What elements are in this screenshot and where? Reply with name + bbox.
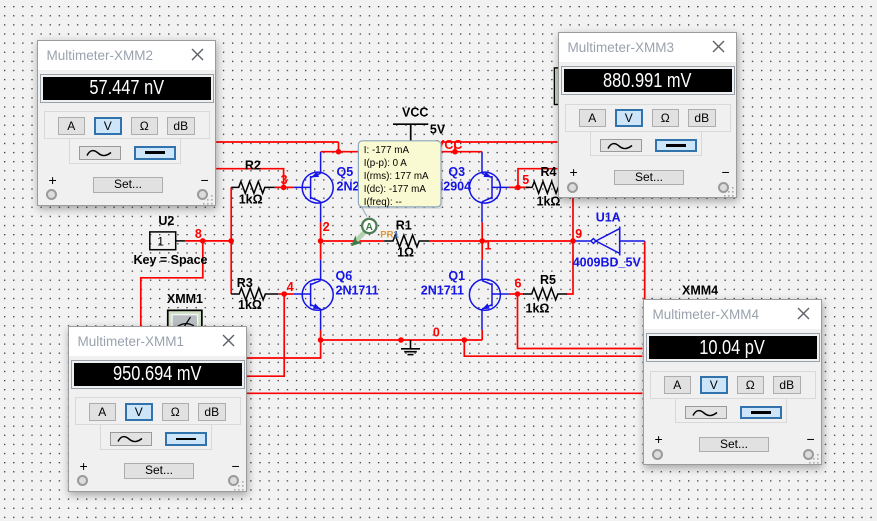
svg-text:I(p-p): 0 A: I(p-p): 0 A xyxy=(364,158,407,169)
svg-text:U2: U2 xyxy=(158,214,174,228)
wire Q6 emitter to rail, down-left to XMM1 xyxy=(246,330,321,358)
svg-text:3: 3 xyxy=(281,173,288,187)
wire top rail right to XMM3 xyxy=(441,141,558,143)
junction node 4 xyxy=(281,291,287,297)
svg-text:2N1711: 2N1711 xyxy=(421,284,464,298)
instrument icon XMM1 xyxy=(167,310,203,336)
svg-text:5: 5 xyxy=(522,173,529,187)
wire XMM3 minus down through node 9 to R5 xyxy=(566,198,573,294)
junction ground rail right xyxy=(462,337,468,343)
wire Q1 base to node 6 xyxy=(509,293,524,295)
wire vertical R2-R3 bus xyxy=(230,187,232,294)
svg-text:Q3: Q3 xyxy=(448,165,465,179)
junction on VCC rail right xyxy=(452,149,458,155)
inverter U1A 4009BD_5V xyxy=(573,227,645,256)
wire drop rail1 to VCC rail at x=338.5 xyxy=(338,142,340,152)
wire U1A output to XMM4 xyxy=(644,241,646,299)
wire rail drop to XMM4 xyxy=(464,340,642,356)
svg-text:0: 0 xyxy=(433,325,440,339)
svg-text:R4: R4 xyxy=(541,165,557,179)
svg-text:Q5: Q5 xyxy=(337,165,354,179)
svg-text:6: 6 xyxy=(515,277,522,291)
junction node 1 xyxy=(479,238,485,244)
wire VCC rail xyxy=(321,151,483,153)
junction node 6 xyxy=(515,291,521,297)
svg-text:Key = Space: Key = Space xyxy=(134,253,208,267)
wire U2 to bus junction xyxy=(185,240,231,242)
resistor R5 1k xyxy=(523,288,567,300)
wire node 5 up to XMM3 xyxy=(518,169,558,188)
wire node 8 down-left to XMM1 xyxy=(141,241,203,328)
probe tooltip xyxy=(358,141,443,217)
Multimeter-XMM2 window xyxy=(37,40,216,206)
svg-text:4: 4 xyxy=(287,280,294,294)
wire drop rail1 to VCC rail at x=455 xyxy=(454,142,456,152)
svg-text:5V: 5V xyxy=(430,123,446,137)
wire node 4 down to XMM1 xyxy=(246,294,284,376)
wire XMM1 to XMM4 bottom xyxy=(246,392,643,394)
ground xyxy=(401,340,420,355)
wire Q5 emitter to node 2 xyxy=(320,222,322,259)
resistor R3 1k xyxy=(231,288,278,300)
wire R2 to node 3 to Q5 base xyxy=(275,186,294,188)
resistor R1 1ohm xyxy=(384,235,429,247)
svg-text:R1: R1 xyxy=(396,219,412,233)
svg-text:Q1: Q1 xyxy=(448,269,465,283)
resistor R4 1k xyxy=(526,182,566,194)
svg-text:I(dc): -177 mA: I(dc): -177 mA xyxy=(364,184,427,195)
wire R3 to node 4 to Q6 base xyxy=(279,293,294,295)
junction node 9 xyxy=(570,238,576,244)
transistor Q3 2N2904 PNP mirrored xyxy=(469,152,508,222)
junction node 8 xyxy=(200,238,206,244)
svg-text:Q6: Q6 xyxy=(336,269,353,283)
svg-text:R5: R5 xyxy=(540,273,556,287)
junction ground rail left xyxy=(318,337,324,343)
junction node 3 xyxy=(281,185,287,191)
transistor Q5 2N2904 PNP xyxy=(294,152,334,222)
Multimeter-XMM1 window xyxy=(68,326,247,492)
svg-text:XMM1: XMM1 xyxy=(167,292,203,306)
wire Q3 collector to node1 to Q1 collector xyxy=(481,222,483,259)
VCC power symbol xyxy=(393,124,428,152)
wire Q1 emitter to rail xyxy=(481,330,483,340)
wire middle rail node2 to R1 xyxy=(321,240,385,242)
wire Q3 base to node 5 xyxy=(509,186,529,188)
svg-text:R2: R2 xyxy=(245,159,261,173)
resistor R2 1k xyxy=(231,182,275,194)
wire middle rail R1 to node1 to node9 xyxy=(429,240,573,242)
svg-text:1Ω: 1Ω xyxy=(397,245,414,259)
svg-text:2N1711: 2N1711 xyxy=(336,284,379,298)
svg-text:1kΩ: 1kΩ xyxy=(526,301,550,315)
svg-text:R3: R3 xyxy=(237,276,253,290)
svg-text:I(freq): --: I(freq): -- xyxy=(364,197,402,208)
svg-text:XMM4: XMM4 xyxy=(682,284,718,298)
wire node 6 down to XMM4 xyxy=(518,294,643,349)
svg-text:1kΩ: 1kΩ xyxy=(238,298,262,312)
wire top rail from XMM2 xyxy=(216,141,338,143)
Multimeter-XMM3 window xyxy=(558,32,737,198)
current probe PR1 xyxy=(351,219,376,247)
svg-text:VCC: VCC xyxy=(402,106,428,120)
svg-text:1: 1 xyxy=(157,235,164,249)
svg-text:1: 1 xyxy=(485,239,492,253)
wire XMM2 to node 3 xyxy=(216,169,283,188)
svg-text:9: 9 xyxy=(575,227,582,241)
svg-text:1kΩ: 1kΩ xyxy=(239,192,263,206)
svg-text:U1A: U1A xyxy=(596,211,621,225)
junction ground rail mid xyxy=(398,337,404,343)
wire bottom ground rail xyxy=(321,339,483,341)
svg-text:I: -177 mA: I: -177 mA xyxy=(364,145,410,156)
switch U2 box xyxy=(150,232,185,250)
junction node 8 bus xyxy=(228,238,234,244)
svg-text:I(rms): 177 mA: I(rms): 177 mA xyxy=(364,171,429,182)
svg-text:2: 2 xyxy=(323,220,330,234)
svg-text:4009BD_5V: 4009BD_5V xyxy=(573,256,642,270)
svg-text:8: 8 xyxy=(195,227,202,241)
junction node 2 xyxy=(318,238,324,244)
junction on VCC rail left xyxy=(336,149,342,155)
transistor Q6 2N1711 NPN xyxy=(294,260,334,330)
svg-text:A: A xyxy=(366,222,373,233)
transistor Q1 2N1711 NPN mirrored xyxy=(469,260,508,330)
Multimeter-XMM4 window xyxy=(643,299,822,465)
instrument icon XMM3 sliver xyxy=(554,67,559,105)
junction node 5 xyxy=(515,185,521,191)
